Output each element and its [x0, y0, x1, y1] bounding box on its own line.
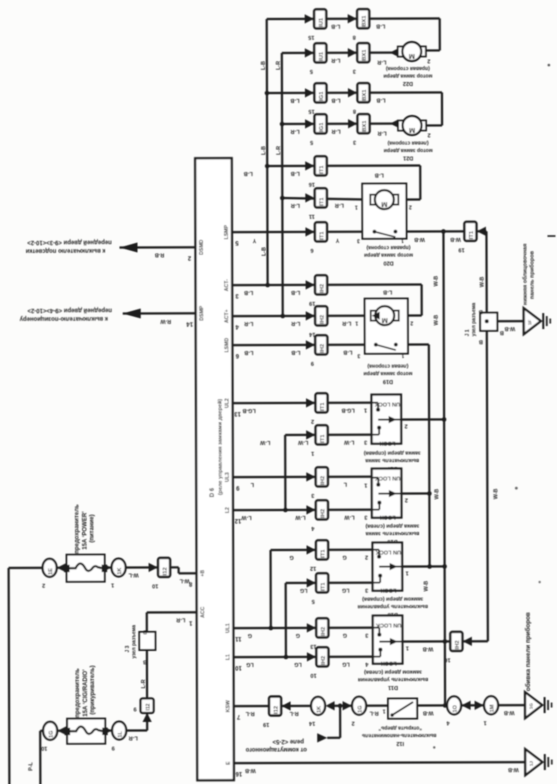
- svg-text:IH2: IH2: [321, 656, 327, 665]
- svg-text:L-W: L-W: [240, 514, 251, 520]
- wire: UL2 pin13 LG-B to D17: [233, 402, 372, 405]
- svg-text:E: E: [226, 761, 232, 765]
- svg-text:IH2: IH2: [320, 476, 326, 485]
- svg-text:IU1: IU1: [319, 51, 325, 61]
- svg-text:LG: LG: [294, 661, 302, 667]
- svg-text:замка двери (справа): замка двери (справа): [364, 450, 421, 456]
- svg-text:L-R: L-R: [331, 128, 340, 134]
- connector BX1 pin3: [348, 48, 357, 57]
- svg-text:R-L: R-L: [369, 710, 379, 716]
- svg-text:L-B: L-B: [261, 61, 267, 70]
- svg-text:(прикуриватель): (прикуриватель): [90, 665, 96, 714]
- connector I12 pin9 (vertical wire): [143, 713, 152, 722]
- svg-text:D11: D11: [388, 684, 398, 690]
- svg-text:1E: 1E: [48, 568, 54, 575]
- svg-text:L-B: L-B: [291, 289, 300, 295]
- svg-text:1G: 1G: [529, 703, 534, 710]
- svg-text:(питание): (питание): [89, 514, 95, 542]
- connector IT1 pin2: [306, 398, 315, 407]
- svg-text:1: 1: [188, 619, 192, 625]
- svg-text:1L: 1L: [118, 730, 124, 737]
- svg-text:LOCK: LOCK: [380, 514, 396, 520]
- connector 1O pin4: [447, 696, 461, 714]
- connector IT1 pin6: [305, 227, 314, 236]
- wire: ground bus x=444: [443, 231, 445, 703]
- connector IT1 pin1: [306, 430, 315, 439]
- svg-text:LG: LG: [246, 661, 254, 667]
- svg-text:LSMD: LSMD: [224, 338, 230, 353]
- svg-text:5: 5: [312, 598, 315, 604]
- svg-text:узел разъема: узел разъема: [131, 625, 137, 659]
- connector IT1 pin5: [307, 578, 316, 587]
- tick mark right edge: [547, 235, 555, 237]
- junction connector J1: [480, 313, 497, 331]
- key lock switch D17: [372, 395, 402, 444]
- svg-text:5: 5: [310, 68, 313, 74]
- wire row3: L-B to D21 motor loop: [267, 91, 442, 94]
- svg-text:2: 2: [311, 418, 314, 424]
- svg-text:выключатель-напоминатель: выключатель-напоминатель: [362, 732, 437, 738]
- svg-text:(правая сторона): (правая сторона): [386, 65, 430, 71]
- connector BX1 pin8: [348, 88, 357, 97]
- svg-text:R-L: R-L: [245, 710, 255, 716]
- svg-text:G: G: [248, 632, 252, 638]
- connector 1L pin9: [103, 726, 112, 735]
- door lock motor assembly D20 (front RH), motor + switch: [362, 184, 406, 239]
- svg-text:1: 1: [406, 570, 409, 576]
- svg-text:IH2: IH2: [321, 627, 327, 636]
- fuse 15A POWER: [67, 555, 105, 582]
- connector IG1 pin5: [305, 119, 314, 128]
- svg-text:L-R: L-R: [291, 320, 300, 326]
- svg-text:W-B: W-B: [434, 489, 440, 500]
- svg-text:W-B: W-B: [414, 236, 425, 242]
- svg-text:LG: LG: [300, 587, 308, 593]
- wire: KSW pin7 R-L chain: [234, 705, 269, 707]
- svg-text:9: 9: [311, 360, 314, 366]
- svg-text:L-B: L-B: [331, 97, 340, 103]
- connector IH2 pin10: [307, 652, 316, 661]
- svg-text:L-R: L-R: [377, 130, 386, 136]
- svg-text:W-B: W-B: [504, 325, 515, 331]
- connector IH2 pin9: [306, 340, 315, 349]
- svg-text:LG: LG: [342, 661, 350, 667]
- svg-text:D 6: D 6: [210, 487, 216, 497]
- svg-text:L-R: L-R: [276, 61, 282, 70]
- svg-text:L-B: L-B: [376, 97, 385, 103]
- svg-text:15A ‘CIG/RADIO’: 15A ‘CIG/RADIO’: [83, 669, 89, 717]
- svg-text:L2: L2: [225, 507, 231, 513]
- svg-text:IT1: IT1: [320, 434, 326, 443]
- wire: UL1 pin11 G to D11: [233, 627, 372, 630]
- svg-text:M: M: [409, 126, 415, 135]
- svg-text:2: 2: [428, 131, 431, 137]
- svg-text:L-B: L-B: [343, 349, 352, 355]
- svg-text:DSMD: DSMD: [199, 239, 205, 255]
- svg-text:16: 16: [444, 656, 450, 662]
- svg-text:BX1: BX1: [362, 89, 368, 101]
- door courtesy switch I12 (door open warning): [388, 699, 417, 719]
- svg-text:10: 10: [152, 582, 158, 588]
- svg-text:I12: I12: [274, 706, 280, 714]
- svg-text:L-R: L-R: [335, 202, 344, 208]
- svg-text:5: 5: [235, 239, 239, 245]
- svg-text:IT1: IT1: [321, 549, 327, 558]
- svg-text:UL3: UL3: [225, 472, 231, 482]
- svg-text:LG-B: LG-B: [341, 407, 354, 413]
- svg-text:IH2: IH2: [320, 509, 326, 518]
- svg-text:1: 1: [364, 482, 367, 488]
- svg-text:19: 19: [309, 300, 315, 306]
- svg-text:Y: Y: [335, 237, 339, 243]
- svg-text:2: 2: [42, 582, 45, 588]
- svg-text:IG1: IG1: [319, 122, 325, 132]
- svg-text:2: 2: [409, 204, 412, 210]
- svg-text:(правая сторона): (правая сторона): [366, 244, 410, 250]
- svg-text:9: 9: [112, 745, 115, 751]
- svg-text:3: 3: [364, 439, 367, 445]
- svg-text:IT1: IT1: [319, 165, 325, 174]
- connector IG1 pin15: [305, 88, 314, 97]
- svg-text:4: 4: [446, 719, 450, 725]
- svg-text:1F: 1F: [527, 320, 532, 326]
- svg-text:10: 10: [310, 672, 316, 678]
- svg-text:B: B: [143, 658, 147, 664]
- wire: from relay branch arrow: [339, 706, 341, 738]
- ground E circuit: [525, 749, 542, 775]
- connector IU1 pin5: [305, 48, 314, 57]
- door lock motor assembly D19 (left side), motor + switch: [365, 299, 408, 354]
- svg-text:к выключателю-позиционеру: к выключателю-позиционеру: [19, 315, 108, 321]
- wire: door switch to ground W-B: [417, 704, 525, 707]
- svg-text:R-B: R-B: [155, 251, 165, 257]
- svg-text:L-B: L-B: [375, 172, 384, 178]
- svg-text:L-B: L-B: [244, 170, 253, 176]
- connector IT1 pin11: [305, 193, 314, 202]
- svg-text:13: 13: [234, 410, 241, 416]
- svg-text:4: 4: [235, 323, 239, 329]
- svg-text:10: 10: [234, 664, 241, 670]
- svg-text:L-W: L-W: [297, 439, 308, 445]
- svg-text:(реле управления замками двере: (реле управления замками дверей): [217, 399, 224, 496]
- svg-text:L-R: L-R: [244, 320, 253, 326]
- connector 1K pin1: [102, 563, 111, 572]
- wire: ACT- branch bus (L-B) vertical x=268: [266, 19, 269, 285]
- svg-text:G: G: [289, 554, 293, 560]
- svg-text:15: 15: [308, 108, 314, 114]
- connector IH2 pin19: [306, 280, 315, 289]
- svg-text:J 1: J 1: [465, 329, 471, 336]
- wire row4: L-R to D21 motor: [282, 122, 399, 125]
- svg-text:выключатель замка: выключатель замка: [365, 530, 420, 536]
- svg-text:14: 14: [186, 320, 193, 326]
- svg-text:ACT+: ACT+: [224, 309, 230, 323]
- svg-text:M: M: [382, 316, 388, 325]
- relay block D6 (door lock control relay): [195, 158, 234, 780]
- connector 1G pin2: [352, 697, 366, 715]
- svg-text:UL1: UL1: [225, 623, 231, 633]
- svg-text:3: 3: [311, 492, 314, 498]
- svg-text:1: 1: [355, 320, 358, 326]
- svg-text:16: 16: [235, 770, 242, 776]
- svg-text:10: 10: [41, 745, 47, 751]
- svg-text:L-B: L-B: [383, 289, 392, 295]
- svg-text:UL2: UL2: [225, 398, 231, 408]
- svg-text:W-B: W-B: [480, 276, 486, 287]
- svg-text:6: 6: [310, 247, 313, 253]
- connector IH2 pin3: [306, 472, 315, 481]
- svg-text:1K: 1K: [117, 567, 123, 574]
- svg-text:BX1: BX1: [362, 15, 368, 27]
- svg-text:1K: 1K: [317, 706, 323, 713]
- connector IH2 pin13: [307, 623, 316, 632]
- svg-text:L-R: L-R: [176, 616, 185, 622]
- wire row7: Y from LSMP pin5 to D20 switch: [232, 231, 374, 234]
- svg-text:3: 3: [365, 632, 368, 638]
- wire: L1 pin10 LG to D11: [233, 656, 372, 659]
- svg-text:L-R: L-R: [331, 57, 340, 63]
- svg-text:BX1: BX1: [362, 120, 368, 132]
- svg-text:L-B: L-B: [376, 23, 385, 29]
- svg-text:11: 11: [309, 213, 315, 219]
- ground door switch circuit: [525, 692, 542, 718]
- svg-text:P-L: P-L: [28, 761, 34, 770]
- svg-text:3: 3: [364, 514, 367, 520]
- svg-text:L-R: L-R: [129, 734, 138, 740]
- svg-text:19: 19: [263, 721, 269, 727]
- svg-text:LOCK: LOCK: [381, 587, 397, 593]
- ground via J1 (instrument panel): [524, 308, 541, 334]
- svg-text:к выключателю подсветки: к выключателю подсветки: [25, 247, 105, 253]
- svg-text:9: 9: [235, 484, 239, 490]
- wire: DSMD pin2 to left arrow (R-B): [119, 246, 195, 248]
- svg-text:L-B: L-B: [244, 349, 253, 355]
- svg-text:W-B: W-B: [424, 581, 430, 592]
- svg-text:12: 12: [310, 565, 316, 571]
- svg-text:W-B: W-B: [423, 709, 434, 715]
- svg-text:12: 12: [234, 517, 241, 523]
- connector IH2 pin16: [463, 637, 472, 646]
- svg-text:3: 3: [365, 587, 368, 593]
- svg-text:выключатель управления: выключатель управления: [358, 676, 428, 682]
- svg-text:панель приборов: панель приборов: [529, 250, 536, 299]
- svg-text:L-R: L-R: [377, 59, 386, 65]
- wire: D17 common to bus W-B: [401, 418, 444, 420]
- wire: IH2-16 right side to right bus corner: [463, 640, 488, 642]
- svg-text:передней двери <9-3><10-2>: передней двери <9-3><10-2>: [27, 239, 112, 246]
- svg-text:IH2: IH2: [320, 344, 326, 353]
- svg-text:W-B: W-B: [493, 488, 499, 499]
- svg-text:M: M: [381, 200, 387, 209]
- svg-text:2: 2: [352, 720, 355, 726]
- wire row5: L-B to D20 motor loop: [267, 164, 420, 167]
- svg-text:L-B: L-B: [261, 146, 267, 155]
- svg-text:L-B: L-B: [291, 349, 300, 355]
- svg-text:1G: 1G: [49, 730, 55, 737]
- connector I12 pin10: [149, 563, 158, 572]
- svg-text:L-R: L-R: [276, 146, 282, 155]
- svg-text:G: G: [343, 632, 347, 638]
- svg-text:W-B: W-B: [450, 236, 461, 242]
- svg-text:1: 1: [382, 708, 385, 714]
- svg-text:5: 5: [310, 139, 313, 145]
- svg-text:1O: 1O: [453, 704, 459, 712]
- svg-text:IT1: IT1: [321, 582, 327, 591]
- wire: +B fuse feed chain: [9, 567, 43, 569]
- svg-text:IH2: IH2: [320, 284, 326, 293]
- svg-text:11: 11: [235, 635, 242, 641]
- svg-text:L-R: L-R: [290, 128, 299, 134]
- svg-text:J 3: J 3: [125, 645, 131, 652]
- svg-text:W-B: W-B: [508, 766, 519, 772]
- connector IH2 pin14: [306, 311, 315, 320]
- svg-text:(левая сторона): (левая сторона): [387, 139, 428, 145]
- svg-text:LOCK: LOCK: [379, 440, 395, 446]
- svg-text:W-B: W-B: [434, 315, 440, 326]
- wire: ACT+ branch bus (L-R) vertical x=283: [281, 53, 284, 316]
- svg-text:B: B: [143, 628, 147, 634]
- svg-text:LG-B: LG-B: [242, 407, 255, 413]
- wire: ACC fuse feed chain: [40, 730, 43, 732]
- wire: D16 common to bus x=429: [401, 492, 429, 494]
- wire: J1 to ground: [497, 320, 523, 322]
- svg-text:I12: I12: [146, 703, 152, 710]
- svg-text:LSMP: LSMP: [224, 224, 230, 239]
- svg-text:Y: Y: [252, 237, 256, 243]
- svg-text:8: 8: [353, 108, 356, 114]
- svg-text:мотор замка двери: мотор замка двери: [383, 72, 432, 78]
- svg-text:ACC: ACC: [200, 606, 206, 618]
- svg-text:L-W: L-W: [259, 439, 270, 445]
- svg-text:BX1: BX1: [362, 49, 368, 61]
- svg-text:W-B: W-B: [504, 709, 515, 715]
- svg-text:выключатель замка: выключатель замка: [364, 457, 419, 463]
- svg-text:19: 19: [458, 246, 464, 252]
- svg-text:мотор замка двери: мотор замка двери: [363, 370, 412, 376]
- junction row3/bus: [265, 91, 270, 96]
- key lock switch D16: [372, 469, 402, 518]
- svg-text:L-R: L-R: [291, 202, 300, 208]
- svg-text:L: L: [343, 481, 347, 487]
- connector IU1 pin15: [305, 14, 314, 23]
- connector BX1 pin3: [348, 119, 357, 128]
- svg-text:от коммутационного: от коммутационного: [245, 746, 307, 752]
- svg-text:2: 2: [427, 57, 430, 63]
- svg-text:R-L: R-L: [289, 710, 299, 716]
- motor D21 rear LH door lock: [390, 120, 398, 128]
- wire: D11 common W-B to IH2-16: [402, 640, 449, 642]
- wire: L2 pin12 L-W to D16: [233, 509, 372, 512]
- connector IH2 pin4: [306, 505, 315, 514]
- svg-text:7: 7: [236, 713, 240, 719]
- svg-text:15A ‘POWER’: 15A ‘POWER’: [82, 511, 88, 550]
- svg-text:“открыта дверь”: “открыта дверь”: [378, 724, 422, 730]
- svg-text:L-B: L-B: [244, 289, 253, 295]
- svg-text:L-B: L-B: [261, 247, 267, 256]
- wire: ACT- pin3 L-B to D19 loop: [232, 283, 421, 286]
- svg-text:D22: D22: [403, 80, 413, 86]
- svg-text:3: 3: [353, 68, 356, 74]
- svg-text:W-B: W-B: [422, 645, 433, 651]
- svg-text:замком двери (слева): замком двери (слева): [364, 668, 422, 674]
- svg-text:DSMP: DSMP: [199, 305, 205, 321]
- wire: D19 switch to W-B bus x=429: [396, 343, 429, 345]
- svg-text:1M: 1M: [490, 704, 496, 712]
- svg-text:выключатель управления: выключатель управления: [358, 603, 428, 609]
- svg-text:L-R: L-R: [342, 320, 351, 326]
- wire row2: L-R to D22 motor: [282, 51, 399, 54]
- svg-text:B: B: [479, 308, 483, 314]
- svg-text:реле <2-5>: реле <2-5>: [272, 738, 304, 744]
- connector 1E pin2: [43, 559, 57, 577]
- svg-text:W-B: W-B: [434, 276, 440, 287]
- svg-text:1: 1: [364, 407, 367, 413]
- svg-text:1: 1: [406, 645, 409, 651]
- svg-text:W-B: W-B: [245, 767, 256, 773]
- svg-text:D20: D20: [383, 260, 393, 266]
- svg-text:мотор замка двери: мотор замка двери: [384, 147, 433, 153]
- svg-text:IT1: IT1: [320, 402, 326, 411]
- connector IT1 pin16: [305, 161, 314, 170]
- svg-text:1: 1: [111, 582, 114, 588]
- wire: D20 switch to ground bus, W-B: [395, 230, 464, 232]
- svg-text:4: 4: [364, 661, 368, 667]
- svg-text:2: 2: [187, 254, 191, 260]
- svg-text:2: 2: [410, 320, 413, 326]
- connector 1K pin14: [311, 697, 325, 715]
- svg-text:L-R: L-R: [141, 679, 147, 688]
- svg-text:4: 4: [310, 525, 314, 531]
- svg-text:2: 2: [405, 423, 408, 429]
- fuse 15A CIG/RADIO: [67, 719, 105, 744]
- svg-text:15: 15: [308, 34, 314, 40]
- svg-text:предохранитель: предохранитель: [74, 504, 80, 554]
- svg-text:IT1: IT1: [319, 197, 325, 206]
- svg-text:1: 1: [355, 204, 358, 210]
- door lock control switch D18: [373, 543, 403, 591]
- svg-text:2: 2: [365, 554, 368, 560]
- svg-text:1G: 1G: [358, 705, 364, 712]
- svg-text:IT1: IT1: [469, 230, 475, 239]
- wire row6: L-R to D20 motor: [282, 198, 373, 200]
- svg-text:ACT-: ACT-: [224, 279, 230, 291]
- svg-text:6: 6: [235, 352, 239, 358]
- svg-text:3: 3: [353, 139, 356, 145]
- svg-text:замка двери (слева): замка двери (слева): [365, 523, 419, 529]
- svg-text:W-L: W-L: [179, 577, 190, 583]
- door lock control switch D11: [373, 616, 403, 664]
- svg-text:I12: I12: [163, 567, 169, 575]
- wire row1: L-B to D22 motor loop: [267, 17, 440, 20]
- svg-text:8: 8: [353, 34, 356, 40]
- svg-text:D21: D21: [403, 155, 413, 161]
- svg-text:M: M: [409, 52, 415, 61]
- svg-text:LG: LG: [342, 587, 350, 593]
- wire: D18 common to buses: [402, 565, 444, 567]
- svg-text:3: 3: [357, 237, 360, 243]
- svg-text:I12: I12: [396, 740, 404, 746]
- connector I12 pin19: [282, 701, 291, 710]
- svg-text:IU1: IU1: [319, 17, 325, 27]
- svg-text:нижняя облицовочная: нижняя облицовочная: [521, 244, 528, 305]
- svg-text:2: 2: [405, 497, 408, 503]
- svg-text:G: G: [342, 554, 346, 560]
- svg-text:3: 3: [357, 352, 360, 358]
- svg-text:L-B: L-B: [331, 23, 340, 29]
- svg-text:R-W: R-W: [159, 318, 171, 324]
- wire: IT1-19 to right ground bus corner: [476, 230, 486, 232]
- svg-text:IG1: IG1: [319, 91, 325, 101]
